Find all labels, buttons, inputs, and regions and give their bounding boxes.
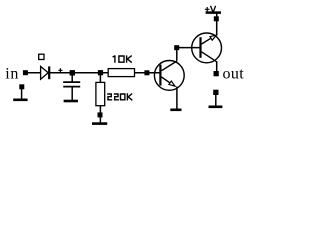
svg-text:out: out [223,65,245,82]
svg-text:in: in [5,65,19,82]
